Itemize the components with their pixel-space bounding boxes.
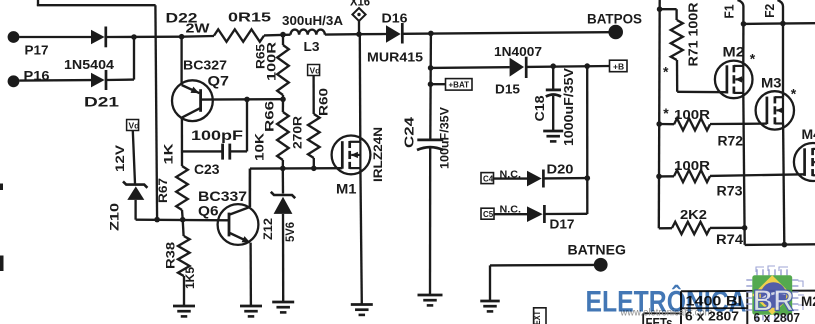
wire: [429, 33, 432, 139]
ground: [480, 301, 500, 311]
wire Q7 base: [202, 98, 283, 101]
wire: [527, 65, 610, 68]
diode D21: [84, 70, 120, 110]
svg-text:100R: 100R: [267, 41, 279, 81]
diode D17: [494, 205, 587, 232]
node junction: [428, 65, 434, 71]
svg-text:D20: D20: [547, 162, 574, 177]
svg-text:12V: 12V: [113, 145, 127, 172]
svg-text:300uH/3A: 300uH/3A: [282, 14, 343, 28]
svg-text:*: *: [750, 50, 756, 66]
resistor R67 1K: [156, 143, 188, 219]
wire: [325, 33, 359, 36]
svg-text:100uF/35V: 100uF/35V: [438, 107, 452, 169]
wire M3 source: [783, 124, 784, 245]
node junction: [742, 225, 748, 231]
svg-text:270R: 270R: [293, 115, 305, 149]
svg-text:M2: M2: [801, 294, 815, 309]
svg-text:MUR415: MUR415: [367, 51, 423, 65]
svg-text:Q7: Q7: [208, 73, 230, 89]
svg-text:R38: R38: [164, 242, 178, 269]
svg-text:X16: X16: [350, 0, 370, 9]
svg-text:*: *: [663, 64, 669, 80]
node junction: [179, 34, 185, 40]
ground: [173, 306, 195, 316]
node junction: [780, 21, 786, 27]
transistor Q7 BC327: [172, 58, 229, 122]
svg-text:M2: M2: [723, 44, 745, 60]
svg-text:M4: M4: [802, 126, 815, 142]
wire: [19, 36, 91, 38]
terminal BATNEG: [490, 243, 626, 272]
svg-text:2W: 2W: [186, 21, 211, 36]
wire M1 source: [360, 168, 361, 304]
svg-text:BATPOS: BATPOS: [587, 12, 642, 27]
svg-text:BATNEG: BATNEG: [568, 243, 627, 258]
node junction: [428, 31, 434, 37]
svg-text:10K: 10K: [253, 133, 267, 161]
transistor Q6 BC337: [198, 189, 258, 245]
wire bottom rail: [745, 243, 815, 246]
svg-text:1N5404: 1N5404: [64, 58, 114, 72]
wire top feed: [37, 0, 157, 220]
node junction: [428, 81, 434, 87]
wire M2 source: [743, 93, 744, 245]
wire: [19, 79, 91, 82]
wire top rail: [744, 22, 815, 25]
wire M2 drain: [742, 24, 744, 66]
svg-text:Q6: Q6: [198, 203, 219, 219]
node junction: [244, 97, 250, 103]
terminal BATPOS: [587, 12, 642, 40]
connector X16: [350, 0, 370, 34]
svg-text:*: *: [663, 105, 669, 121]
svg-text:Z12: Z12: [261, 218, 275, 240]
resistor R60 270R: [293, 76, 331, 168]
diode D15 1N4007: [494, 45, 542, 97]
node junction: [180, 217, 186, 223]
wire M3 gate: [744, 122, 767, 125]
svg-text:BC327: BC327: [183, 58, 227, 73]
label +B box: [610, 60, 628, 71]
label +BAT box: [431, 79, 473, 91]
svg-text:P17: P17: [25, 43, 49, 58]
node junction: [550, 63, 556, 69]
logo eletronicabr chip: [746, 266, 804, 320]
diode D22: [91, 11, 198, 48]
terminal P16: [8, 68, 50, 87]
svg-text:D21: D21: [84, 95, 120, 110]
ground: [543, 131, 563, 141]
resistor R73 100R: [659, 158, 804, 199]
zener Z10 12V: [108, 145, 148, 231]
wire F2: [763, 0, 783, 24]
node junction: [584, 63, 590, 69]
ground: [272, 302, 294, 312]
wire: [489, 265, 491, 301]
svg-text:Vd: Vd: [310, 65, 321, 75]
node junction: [356, 31, 362, 37]
svg-text:100R: 100R: [674, 158, 711, 173]
diode D20: [494, 162, 588, 188]
resistor 0R15 2W: [182, 10, 291, 42]
label EXT box: [532, 308, 546, 324]
svg-text:C18: C18: [533, 95, 547, 121]
svg-text:R66: R66: [265, 101, 277, 132]
wire to BATPOS: [403, 32, 609, 34]
wire M1 gate: [250, 168, 342, 207]
ground: [351, 305, 373, 315]
diode D16 MUR415: [359, 11, 423, 64]
table FETs cell: [643, 313, 681, 324]
node junction: [656, 121, 662, 127]
svg-text:1000uF/35V: 1000uF/35V: [562, 67, 576, 146]
svg-text:IRLZ24N: IRLZ24N: [371, 127, 385, 182]
svg-text:100R: 100R: [674, 107, 711, 122]
wire: [107, 36, 182, 39]
node junction: [154, 217, 160, 223]
wire: [431, 66, 510, 69]
svg-text:R74: R74: [716, 232, 744, 247]
svg-text:100pF: 100pF: [191, 127, 244, 143]
svg-text:1N4007: 1N4007: [494, 45, 542, 59]
svg-text:C24: C24: [403, 117, 417, 148]
wire M1 drain: [359, 34, 362, 142]
node junction: [280, 166, 286, 172]
svg-text:2K2: 2K2: [680, 207, 707, 222]
svg-text:+B: +B: [613, 61, 624, 71]
wire: [133, 131, 135, 184]
svg-text:R71 100R: R71 100R: [686, 2, 701, 67]
svg-text:+BAT: +BAT: [449, 81, 470, 90]
svg-text:1K: 1K: [162, 143, 176, 164]
label C5 box: [481, 208, 494, 219]
resistor R72 100R: [659, 107, 744, 149]
capacitor C24 100uF/35V: [403, 107, 452, 295]
wire: [107, 36, 135, 80]
node junction: [656, 174, 662, 180]
svg-text:*: *: [791, 86, 797, 102]
svg-text:F2: F2: [763, 4, 777, 18]
svg-text:M3: M3: [761, 75, 782, 91]
svg-text:F1: F1: [723, 4, 737, 18]
svg-text:Vd: Vd: [129, 120, 140, 130]
wire F1: [723, 0, 744, 24]
node junction: [280, 32, 286, 38]
capacitor C18 1000uF/35V: [533, 66, 576, 146]
zener Z12 5V6: [261, 168, 297, 302]
svg-text:ELETRÔNICA: ELETRÔNICA: [586, 285, 747, 319]
wire Q7 emitter: [180, 37, 182, 85]
svg-text:R60: R60: [316, 88, 330, 116]
node junction: [741, 21, 747, 27]
wire Q6 collector: [249, 169, 251, 207]
resistor R65 100R: [256, 35, 289, 100]
edge mark: [0, 256, 4, 272]
svg-text:C23: C23: [194, 161, 220, 177]
wire Q7 collector: [181, 118, 183, 166]
label Vd node: [127, 120, 140, 131]
node junction: [131, 34, 137, 40]
svg-text:R67: R67: [156, 178, 170, 203]
resistor R71 100R: [660, 2, 726, 92]
svg-text:6 x 2807: 6 x 2807: [754, 311, 801, 324]
wire node row: [136, 219, 229, 222]
label Vd node: [308, 65, 321, 76]
svg-text:D17: D17: [550, 217, 575, 232]
svg-text:1K5: 1K5: [185, 266, 197, 289]
inductor L3: [282, 14, 343, 54]
mosfet M2: [715, 44, 753, 99]
svg-text:R73: R73: [717, 184, 744, 199]
node junction: [657, 6, 663, 12]
svg-text:5V6: 5V6: [285, 222, 297, 242]
node junction: [280, 96, 286, 102]
svg-text:0R15: 0R15: [228, 10, 271, 25]
wire M3 drain: [782, 24, 784, 98]
mosfet M4: [794, 126, 815, 181]
svg-text:L3: L3: [304, 39, 320, 54]
svg-text:EXT: EXT: [532, 311, 542, 324]
resistor R38 1K5: [164, 220, 197, 306]
table border: [681, 291, 815, 324]
svg-text:C4: C4: [483, 174, 494, 183]
mosfet M3: [756, 75, 794, 130]
mosfet M1 IRLZ24N: [332, 127, 385, 197]
capacitor C23 100pF: [182, 99, 247, 177]
wire: [586, 66, 588, 214]
svg-text:Z10: Z10: [108, 203, 122, 231]
wire +B rail right: [658, 0, 661, 228]
svg-text:C5: C5: [483, 210, 494, 219]
label C4 box: [481, 173, 494, 184]
node junction: [585, 175, 591, 181]
edge mark: [0, 184, 3, 191]
svg-text:R72: R72: [718, 134, 744, 149]
wire Q6 emitter: [249, 243, 252, 306]
svg-text:D16: D16: [382, 11, 408, 25]
resistor R74 2K2: [659, 207, 745, 247]
resistor R66 10K: [253, 99, 289, 168]
svg-text:M1: M1: [336, 181, 357, 197]
node junction: [311, 166, 317, 172]
ground: [240, 306, 262, 316]
ground: [418, 295, 443, 305]
svg-text:D15: D15: [495, 82, 520, 97]
node junction: [782, 242, 788, 248]
terminal P17: [8, 31, 49, 57]
